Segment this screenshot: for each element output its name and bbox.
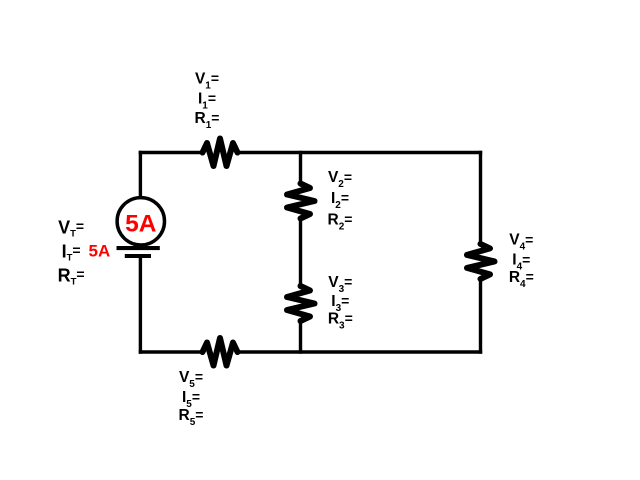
svg-text:I2=: I2= <box>331 190 349 211</box>
resistor R3 <box>287 286 315 321</box>
svg-text:V2=: V2= <box>328 169 352 190</box>
svg-text:R2=: R2= <box>328 211 353 232</box>
battery plate long <box>117 246 160 250</box>
wire right upper <box>479 151 482 244</box>
svg-text:5A: 5A <box>125 210 157 237</box>
svg-text:IT=: IT= <box>62 242 81 264</box>
resistor R5 <box>203 338 238 366</box>
battery plate short <box>125 254 151 258</box>
wire top-left segment <box>139 151 203 154</box>
svg-text:RT=: RT= <box>58 266 85 288</box>
wire middle upper <box>299 151 302 184</box>
wire left lower <box>139 257 142 354</box>
wire top-right segment <box>238 151 483 154</box>
svg-text:V1=: V1= <box>195 70 219 91</box>
current source circle <box>117 198 164 245</box>
resistor R2 <box>287 184 315 219</box>
wire middle lower <box>299 321 302 354</box>
svg-text:V5=: V5= <box>179 369 203 390</box>
wire right lower <box>479 279 482 354</box>
resistor R1 <box>203 139 238 167</box>
svg-text:V4=: V4= <box>509 231 533 252</box>
wire bottom-right segment <box>238 350 483 353</box>
resistor R4 <box>467 244 495 279</box>
svg-text:5A: 5A <box>89 241 111 260</box>
wire bottom-left segment <box>139 350 203 353</box>
svg-text:R1=: R1= <box>195 110 220 131</box>
wire middle center <box>299 219 302 287</box>
svg-text:VT=: VT= <box>58 218 84 240</box>
svg-text:I1=: I1= <box>198 90 216 111</box>
wire left upper <box>139 151 142 198</box>
